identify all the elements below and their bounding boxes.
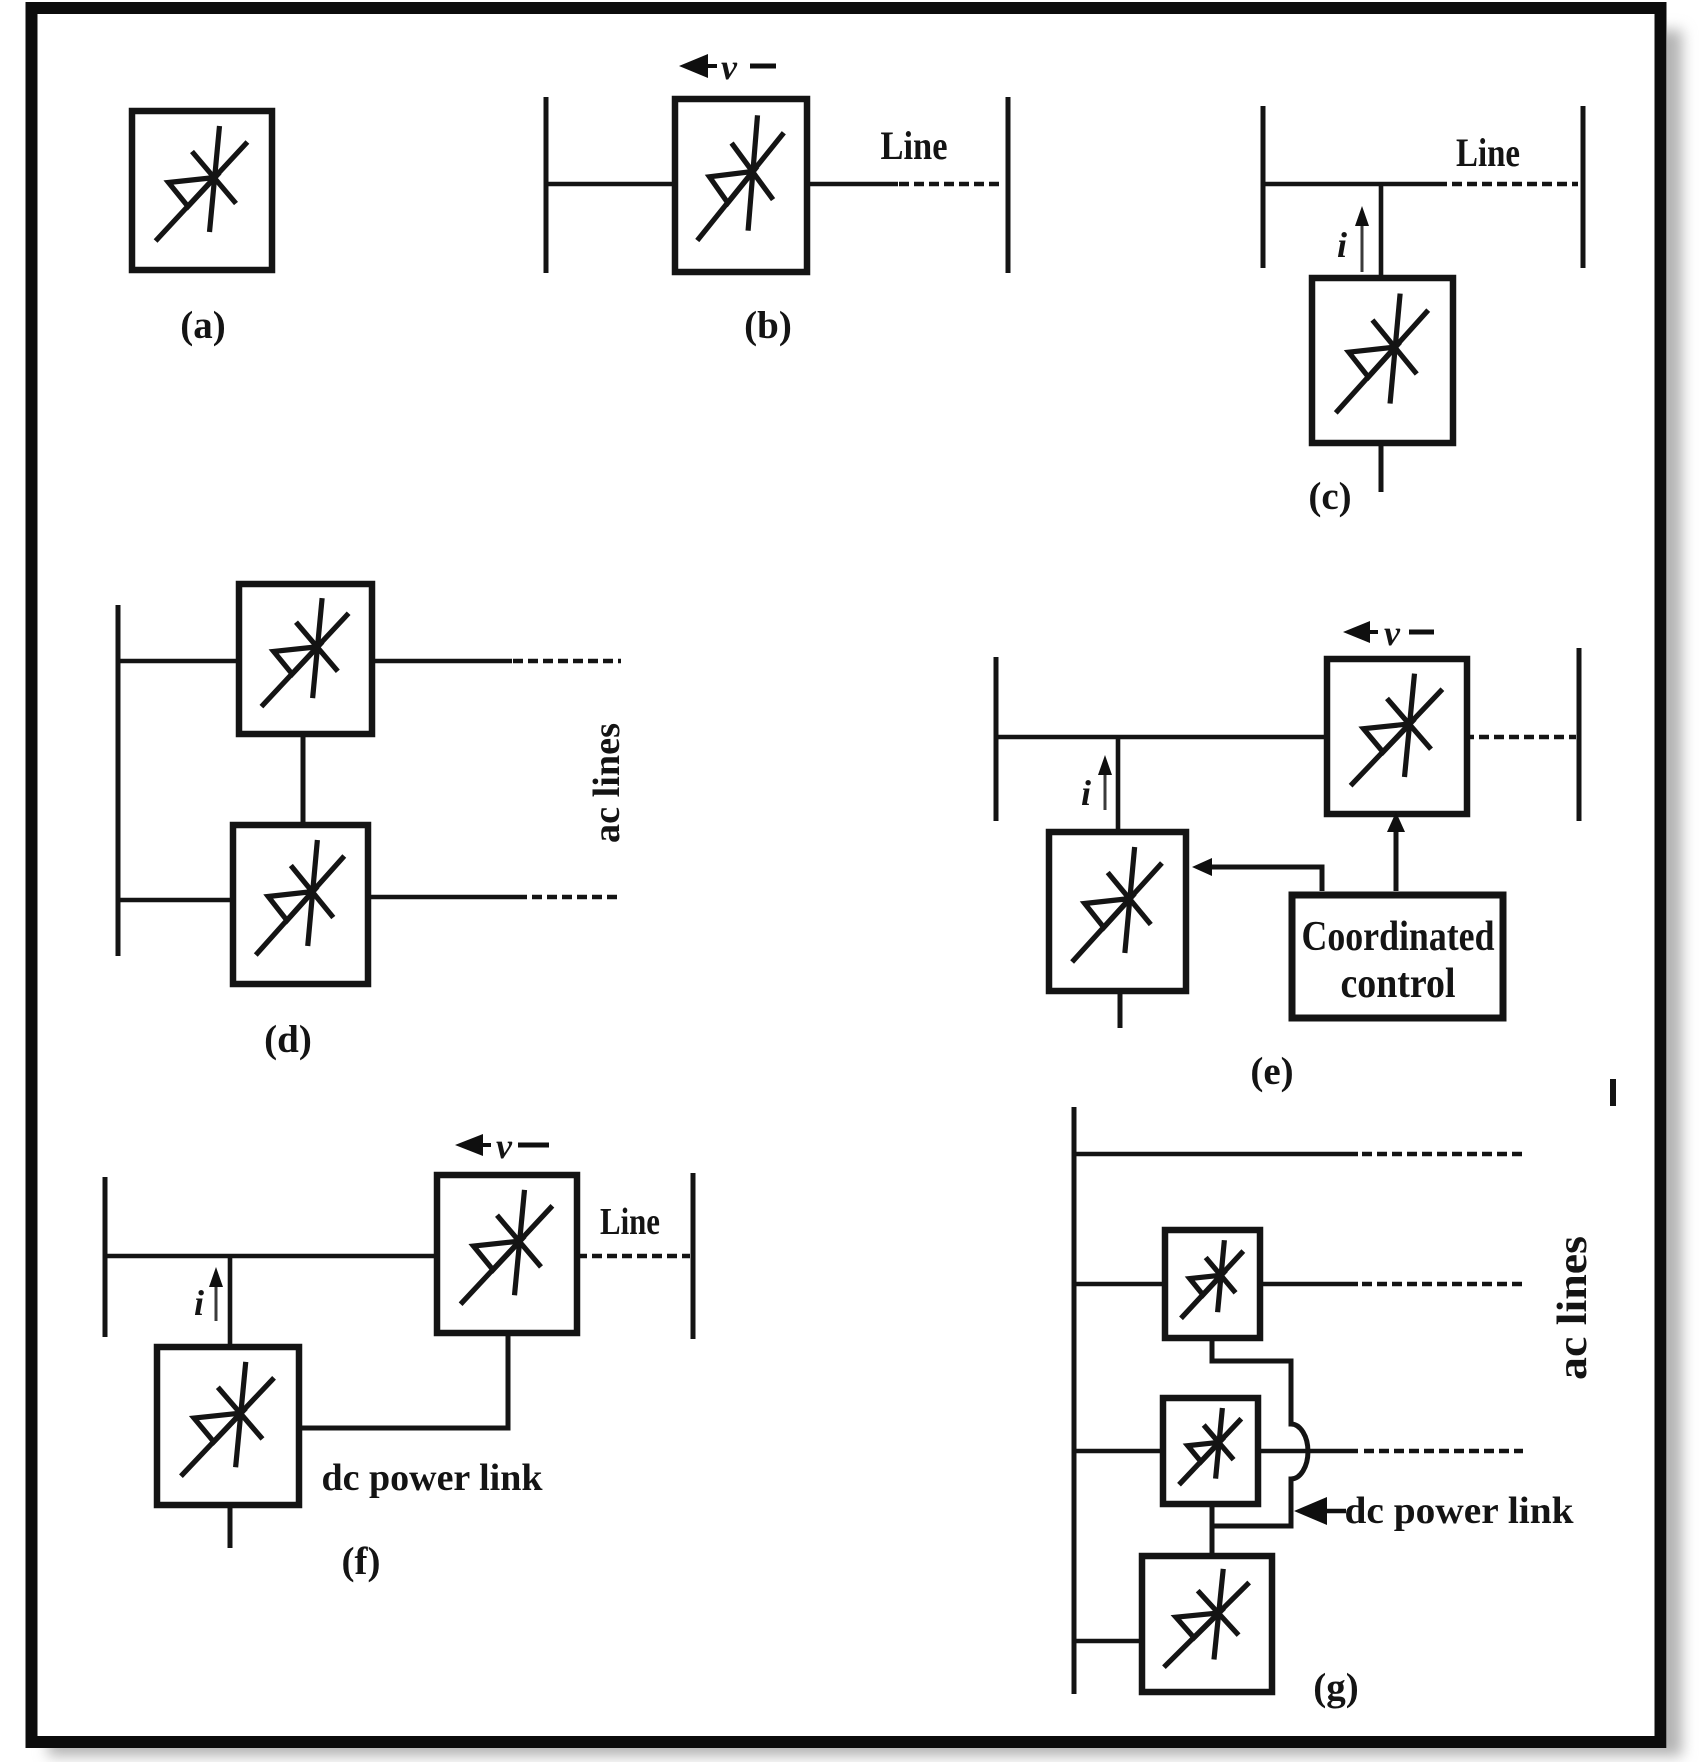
- dc link path (g): [1212, 1338, 1308, 1526]
- bus bar right (f): [691, 1173, 696, 1339]
- stub below box E1: [1118, 988, 1123, 1028]
- ac line 4 (g): [1074, 1639, 1142, 1644]
- svg-text:i: i: [1081, 773, 1091, 813]
- converter box A: [132, 111, 272, 270]
- wire junction down (e): [1116, 737, 1121, 832]
- dashed line segment (c): [1437, 182, 1578, 186]
- dashed line segment (f): [577, 1254, 690, 1258]
- dc connector between boxes (d): [301, 734, 306, 825]
- stray mark: [1610, 1079, 1616, 1106]
- stub below box F1: [228, 1505, 233, 1548]
- bus bar right (b): [1006, 97, 1011, 273]
- coordinated control box (e): [1292, 895, 1503, 1018]
- dc power link wire (f): [299, 1333, 508, 1428]
- bus bar (d): [116, 605, 121, 956]
- current arrow i (f): [215, 1277, 218, 1321]
- svg-text:Coordinated: Coordinated: [1302, 914, 1495, 960]
- voltage arrowhead (e): [1343, 621, 1370, 643]
- bus bar left (b): [544, 97, 549, 273]
- converter box C: [1312, 278, 1453, 443]
- bus bar left (f): [103, 1177, 108, 1337]
- dashed line segment (e): [1464, 735, 1576, 739]
- ac line 2 (g): [1074, 1282, 1165, 1287]
- svg-text:Line: Line: [881, 123, 948, 168]
- svg-text:(c): (c): [1308, 475, 1351, 518]
- bus bar left (c): [1261, 106, 1266, 268]
- converter box G3: [1142, 1556, 1272, 1692]
- wire top box to line (d): [372, 659, 512, 664]
- svg-text:(f): (f): [342, 1540, 381, 1583]
- dashed line segment (b): [899, 182, 1004, 186]
- svg-text:(b): (b): [744, 304, 792, 347]
- stub box G2 to G3 (g): [1210, 1504, 1215, 1556]
- svg-text:Line: Line: [600, 1201, 660, 1243]
- dashed line top (d): [513, 659, 621, 663]
- svg-text:Line: Line: [1456, 130, 1520, 175]
- converter box E2: [1327, 659, 1467, 814]
- voltage arrowhead (b): [679, 54, 708, 78]
- converter box G1: [1165, 1230, 1260, 1338]
- control arrow left to E1 (e): [1207, 867, 1322, 891]
- wire bus to box (e): [996, 735, 1327, 740]
- svg-text:(e): (e): [1250, 1050, 1293, 1093]
- svg-text:(a): (a): [180, 304, 225, 347]
- wire bottom box to line (d): [368, 895, 517, 900]
- converter box E1: [1049, 832, 1186, 991]
- dc power link arrow (g): [1294, 1497, 1327, 1525]
- dashed line bottom (d): [517, 895, 621, 899]
- svg-text:control: control: [1341, 961, 1456, 1007]
- bus bar right (e): [1577, 648, 1582, 821]
- wire bus to box (b): [546, 182, 675, 187]
- converter box B: [675, 99, 807, 272]
- ac line 1 (g): [1074, 1152, 1358, 1157]
- wire bus to box (f): [105, 1254, 437, 1259]
- svg-text:(d): (d): [264, 1018, 312, 1061]
- converter box D2: [233, 825, 368, 984]
- svg-text:i: i: [194, 1283, 204, 1323]
- svg-text:(g): (g): [1313, 1666, 1358, 1709]
- svg-text:v: v: [1384, 613, 1401, 653]
- wire junction down (f): [228, 1256, 233, 1347]
- stub below box (c): [1379, 443, 1384, 492]
- svg-text:dc power link: dc power link: [322, 1457, 544, 1499]
- converter box F1: [157, 1347, 299, 1505]
- wire box to line (b): [807, 182, 898, 187]
- bus bar (g): [1072, 1107, 1077, 1694]
- bus bar right (c): [1581, 106, 1586, 268]
- svg-text:ac lines: ac lines: [586, 723, 628, 843]
- ac line 3 (g): [1074, 1449, 1163, 1454]
- converter box F2: [437, 1175, 577, 1333]
- bus bar left (e): [994, 657, 999, 821]
- svg-text:dc power link: dc power link: [1345, 1490, 1575, 1532]
- converter box G2: [1163, 1398, 1258, 1504]
- svg-text:i: i: [1337, 225, 1347, 265]
- wire junction to box (c): [1379, 184, 1384, 278]
- svg-text:v: v: [496, 1126, 513, 1166]
- svg-text:v: v: [721, 47, 738, 87]
- svg-text:ac lines: ac lines: [1550, 1236, 1596, 1380]
- wire bus to top box (d): [118, 659, 239, 664]
- converter box D1: [239, 584, 372, 734]
- wire bus to line (c): [1263, 182, 1437, 187]
- current arrow i (e): [1104, 764, 1107, 810]
- control arrow up to E2 (e): [1394, 828, 1399, 891]
- minus sign (e): [1409, 630, 1434, 635]
- minus sign (f): [518, 1143, 549, 1148]
- current arrow i (c): [1361, 216, 1364, 272]
- voltage arrowhead (f): [455, 1134, 483, 1156]
- wire bus to bottom box (d): [118, 898, 233, 903]
- minus sign (b): [750, 64, 776, 69]
